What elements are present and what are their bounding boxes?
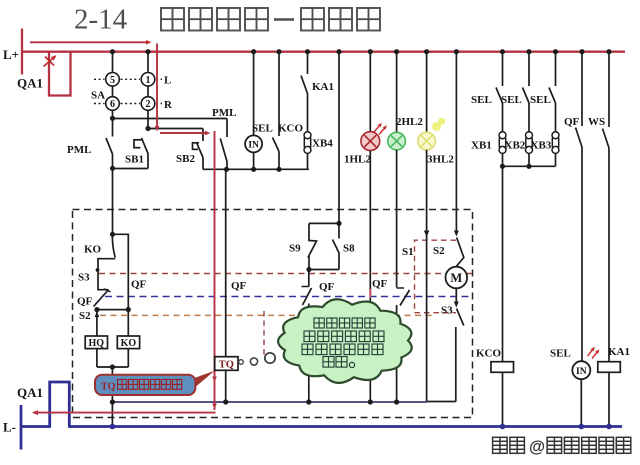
- coil KO: [117, 336, 139, 349]
- svg-text:TQ: TQ: [219, 359, 234, 370]
- svg-text:S9: S9: [289, 243, 301, 255]
- svg-text:TQ: TQ: [101, 381, 116, 392]
- mechanical linkage dashed line S2 (orange): [100, 314, 434, 316]
- node under circle 2: [147, 110, 149, 128]
- cloud text line3: [302, 344, 313, 355]
- SA contact circle 6: [106, 97, 120, 111]
- svg-text:XB3: XB3: [531, 140, 552, 152]
- mechanical linkage dashed line S3 (red): [99, 273, 472, 275]
- wire 5 to 6: [112, 86, 114, 97]
- svg-text:M: M: [450, 271, 462, 285]
- svg-text:S2: S2: [79, 310, 91, 322]
- red path: vertical beside SA: [156, 44, 158, 128]
- svg-text:KO: KO: [121, 338, 137, 349]
- SA contact circle 1: [141, 73, 155, 87]
- svg-text:KA1: KA1: [608, 346, 630, 358]
- motor M: [446, 267, 468, 289]
- svg-text:QF: QF: [77, 296, 93, 308]
- mechanical linkage dashed line (navy): [105, 296, 472, 298]
- svg-text:3HL2: 3HL2: [427, 154, 454, 166]
- L+ terminal stub: [21, 29, 23, 75]
- SA contact circle 2: [141, 97, 155, 111]
- svg-text:S8: S8: [343, 243, 355, 255]
- callout: TQ energized switch opens: [193, 371, 215, 389]
- dashed link to spring note bubbles: [263, 311, 265, 355]
- socket XB2: [526, 132, 533, 139]
- coil TQ: [215, 357, 238, 371]
- cloud text line4: chu neng: [323, 357, 334, 368]
- wire join down to L-: [111, 367, 113, 427]
- svg-text:SEL: SEL: [501, 94, 522, 106]
- svg-text:XB2: XB2: [505, 140, 526, 152]
- svg-text:SEL: SEL: [252, 123, 273, 135]
- junction dots on L- rail: [110, 424, 116, 430]
- svg-text:S3: S3: [441, 305, 453, 317]
- S8/S9 bottom bar: [309, 269, 339, 271]
- svg-text:1HL2: 1HL2: [344, 154, 371, 166]
- coil bottoms join: [96, 349, 98, 367]
- wire PML/SB1 node down into box: [112, 169, 114, 235]
- svg-text:QF: QF: [319, 281, 335, 293]
- svg-text:KCO: KCO: [278, 123, 304, 135]
- svg-text:SEL: SEL: [471, 94, 492, 106]
- svg-text:KA1: KA1: [312, 81, 334, 93]
- node wire y169: [203, 168, 309, 170]
- svg-text:HQ: HQ: [89, 338, 105, 349]
- red path: return to L- with arrow: [33, 412, 216, 414]
- SA linkage dotted lines and L R labels: [94, 78, 105, 80]
- S8/S9 top bar: [309, 222, 339, 224]
- svg-text:QF: QF: [131, 279, 147, 291]
- svg-text:QF: QF: [231, 280, 247, 292]
- wire node128 to SB2: [148, 128, 203, 130]
- wire bus to SA contact 5: [112, 52, 114, 73]
- wire SB1 bottom to PML bottom: [113, 168, 149, 170]
- svg-text:SA: SA: [91, 90, 105, 102]
- L+ supply rail (red): [22, 51, 625, 53]
- SA contact circle 5: [106, 73, 120, 87]
- wire y169 node down to TQ coil: [225, 169, 227, 356]
- junction dots on L+ rail: [110, 49, 115, 54]
- node wire to KO coil branch: [97, 309, 128, 311]
- wire bus down to S8/S9: [338, 52, 340, 224]
- svg-text:S3: S3: [78, 272, 90, 284]
- wire 1 to 2: [147, 86, 149, 97]
- disconnector QA1 (bottom, navy step): [50, 382, 70, 428]
- wire TQ coil to node line: [225, 370, 227, 402]
- wire XB node down to KCO coil: [502, 166, 504, 361]
- svg-text:SEL: SEL: [530, 94, 551, 106]
- svg-text:KO: KO: [84, 244, 102, 256]
- red path: arrow to SB2/PML: [160, 132, 207, 134]
- svg-text:1: 1: [146, 75, 151, 86]
- svg-text:IN: IN: [248, 141, 259, 151]
- svg-text:PML: PML: [212, 107, 236, 119]
- yellow glow: [432, 122, 441, 131]
- node under circle 6: [112, 110, 114, 118]
- svg-text:2: 2: [146, 99, 151, 110]
- svg-text:6: 6: [110, 99, 115, 110]
- svg-text:S2: S2: [433, 245, 445, 257]
- svg-text:QF: QF: [372, 278, 388, 290]
- svg-text:SB2: SB2: [176, 153, 195, 165]
- node line to L- (collector): [112, 401, 426, 403]
- svg-text:XB4: XB4: [312, 138, 333, 150]
- wire bus to SA contact 1: [147, 52, 149, 72]
- socket XB1: [499, 132, 506, 139]
- XB bottom node wire: [503, 165, 556, 167]
- wire node118 to PML-right: [113, 118, 228, 120]
- svg-text:L: L: [164, 75, 171, 87]
- contact SEL #3: [555, 52, 557, 86]
- wire bus down to S2: [455, 52, 457, 231]
- cloud text line1: zai kai guan he zha: [314, 318, 324, 328]
- red path: vertical down to TQ: [214, 131, 216, 410]
- disconnector QA1 (top, red step): [49, 52, 71, 96]
- lamp-lit arrows at IN: [588, 349, 594, 357]
- cloud text line2: [304, 331, 315, 342]
- lamp-lit arrows at 1HL2: [374, 125, 381, 133]
- watermark: toutiao @ xingfuyuan dianli: [493, 437, 508, 453]
- svg-text:2-14: 2-14: [74, 4, 128, 36]
- svg-text:QF: QF: [564, 116, 580, 128]
- svg-text:QA1: QA1: [17, 76, 43, 91]
- svg-text:IN: IN: [576, 367, 587, 377]
- socket XB3: [552, 132, 559, 139]
- cloud tail bubbles: [265, 353, 275, 363]
- svg-text:L+: L+: [3, 47, 19, 62]
- QA1 open-switch red cross arrow: [44, 56, 56, 67]
- svg-text:5: 5: [110, 75, 115, 86]
- coil HQ: [85, 336, 107, 349]
- dashed enclosure box: [73, 210, 473, 418]
- highlighted current path arrow along rail: [30, 41, 147, 43]
- contact SEL #1: [502, 52, 504, 86]
- svg-text:L-: L-: [3, 420, 16, 435]
- svg-text:@: @: [529, 438, 545, 456]
- spring note cloud: [278, 299, 412, 383]
- svg-text:SB1: SB1: [125, 154, 144, 166]
- svg-text:2HL2: 2HL2: [396, 116, 423, 128]
- svg-text:XB1: XB1: [471, 140, 492, 152]
- svg-text:WS: WS: [588, 116, 605, 128]
- junction dots misc: [110, 116, 115, 121]
- svg-text:KCO: KCO: [476, 348, 502, 360]
- L- supply rail (navy): [20, 405, 23, 450]
- red mark on wire: [369, 289, 371, 298]
- svg-text:PML: PML: [67, 144, 91, 156]
- svg-text:R: R: [164, 99, 173, 111]
- svg-text:QA1: QA1: [17, 385, 43, 400]
- wire to node line: [427, 401, 456, 403]
- contact SEL #2: [528, 52, 530, 86]
- S1 dashed rectangle (red): [415, 240, 457, 313]
- svg-text:SEL: SEL: [550, 348, 571, 360]
- svg-text:S1: S1: [402, 246, 414, 258]
